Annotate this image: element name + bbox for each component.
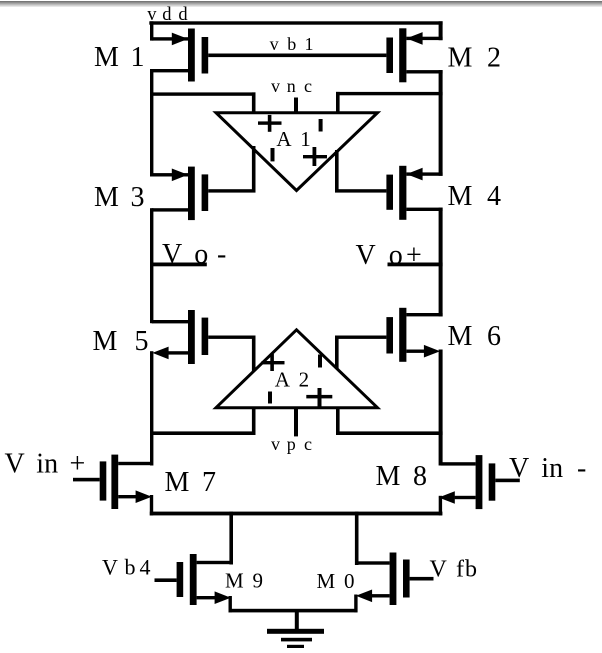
svg-text:8: 8 (413, 461, 427, 492)
svg-text:1: 1 (131, 42, 145, 73)
wire vnc input stub (294, 98, 298, 115)
label M2 (448, 42, 502, 73)
pin mark A2 inverting bottom-left (268, 392, 272, 404)
svg-text:V: V (162, 239, 182, 270)
wire M1 drain down to M3 source (150, 69, 153, 177)
wire tail bus (229, 609, 358, 613)
label M9 (225, 569, 263, 593)
svg-text:A: A (275, 368, 291, 392)
pin mark A2 noninverting bottom-right (306, 388, 332, 407)
label vnc (271, 76, 312, 96)
transistor M6 (335, 308, 443, 362)
svg-text:V: V (102, 555, 118, 580)
wire M7 source down to bus (150, 495, 153, 516)
svg-text:v: v (271, 76, 280, 96)
svg-text:c: c (304, 76, 312, 96)
wire vdd rail (149, 21, 442, 24)
ground (267, 629, 324, 648)
svg-text:2: 2 (487, 42, 501, 73)
svg-text:M: M (165, 467, 190, 498)
svg-text:n: n (287, 76, 296, 96)
label M5 (93, 326, 149, 357)
svg-text:+: + (70, 449, 86, 480)
svg-text:M: M (448, 42, 473, 73)
wire M2 source to vdd rail (439, 21, 443, 40)
wire A1 right input drop (336, 92, 340, 115)
transistor M3 (152, 167, 209, 221)
svg-text:7: 7 (202, 467, 216, 498)
svg-text:0: 0 (344, 569, 355, 593)
transistor M8 (439, 455, 520, 509)
op-amp A1 (216, 113, 378, 191)
wire M6 source down to M8 drain (439, 350, 443, 466)
svg-text:4: 4 (487, 181, 501, 212)
label Vo- (162, 239, 226, 270)
svg-text:3: 3 (131, 182, 145, 213)
svg-text:M: M (448, 181, 473, 212)
svg-text:5: 5 (135, 326, 149, 357)
label vpc (271, 434, 312, 454)
label M3 (94, 182, 145, 213)
label A2 (275, 368, 309, 392)
wire M2 drain down to M4 source (439, 70, 443, 176)
label Vfb (430, 557, 478, 583)
op-amp A2 (216, 330, 378, 408)
wire M3 drain down to M5 drain (150, 208, 153, 323)
svg-text:b: b (125, 555, 136, 580)
label Vin- (509, 453, 586, 484)
label M6 (448, 321, 502, 352)
svg-text:M: M (93, 326, 118, 357)
transistor M2 (386, 28, 442, 82)
svg-text:-: - (217, 239, 226, 270)
label vdd (147, 5, 188, 25)
label M1 (94, 42, 145, 73)
label M4 (448, 181, 502, 212)
svg-text:d: d (178, 5, 188, 25)
wire A1 left output to M3 gate (208, 189, 255, 192)
wire A1 right output down (335, 150, 339, 193)
wire node to A2 right input (336, 431, 443, 435)
svg-text:9: 9 (253, 569, 264, 593)
label M7 (165, 467, 217, 498)
transistor M9 (155, 554, 232, 605)
svg-text:-: - (577, 453, 586, 484)
svg-text:M: M (94, 42, 119, 73)
transistor M0 (355, 553, 434, 606)
svg-text:o: o (389, 240, 403, 271)
pin mark A1 noninverting bottom-right (303, 147, 327, 166)
wire node to A2 left input (150, 431, 256, 435)
wire M0 drain drop (355, 512, 359, 565)
pin mark A2 inverting top-right (318, 355, 322, 368)
wire vpc input stub (294, 407, 298, 437)
wire A2 right output up to M6 gate (335, 336, 339, 372)
wire M0 source down to tail bus (354, 595, 357, 613)
label Vin+ (5, 449, 86, 480)
svg-text:+: + (406, 240, 422, 271)
svg-text:M: M (225, 569, 244, 593)
label vb1 (270, 34, 314, 54)
svg-text:1: 1 (300, 127, 311, 151)
wire M4 drain down to M6 drain (439, 208, 443, 317)
wire M9 source down to tail bus (229, 596, 232, 612)
pin mark A1 noninverting top-left (258, 115, 282, 132)
label M0 (317, 569, 355, 593)
label Vb4 (102, 555, 151, 580)
wire A2 left input stub (252, 407, 256, 436)
svg-text:2: 2 (299, 368, 310, 392)
wire M8 source down to bus (439, 496, 442, 516)
wire M1 source to vdd rail (150, 21, 153, 40)
wire M9 drain drop (229, 512, 233, 565)
wire A1 left output down (252, 146, 256, 193)
svg-text:p: p (287, 434, 296, 454)
svg-text:1: 1 (305, 34, 314, 54)
transistor M1 (152, 29, 209, 82)
pin mark A1 inverting top-right (319, 119, 323, 132)
transistor M4 (386, 166, 442, 220)
node Vo- output stub (150, 263, 207, 267)
svg-text:b: b (287, 34, 296, 54)
svg-text:M: M (376, 461, 401, 492)
svg-text:f: f (456, 557, 464, 583)
svg-text:c: c (304, 434, 312, 454)
wire A2 left output up to M5 gate (252, 336, 256, 372)
wire A1 right output to M4 gate (335, 189, 386, 192)
wire M5 source down to M7 drain (150, 351, 153, 465)
wire vb1 bus M1 gate to M2 gate (208, 54, 386, 58)
svg-text:in: in (541, 453, 563, 484)
wire A1 left input drop (252, 92, 256, 114)
svg-text:in: in (36, 449, 58, 480)
wire common source bus (150, 512, 443, 516)
svg-text:V: V (356, 240, 376, 271)
pin mark A2 noninverting top-left (262, 354, 285, 371)
wire ground stub (295, 611, 299, 630)
svg-text:o: o (194, 239, 208, 270)
label A1 (276, 127, 310, 151)
svg-text:6: 6 (487, 321, 501, 352)
svg-text:M: M (94, 182, 119, 213)
svg-text:b: b (465, 557, 477, 583)
svg-text:d: d (162, 5, 172, 25)
svg-text:v: v (271, 434, 280, 454)
pin mark A1 inverting bottom-left (271, 148, 275, 161)
node Vo+ output stub (388, 263, 443, 267)
svg-text:A: A (276, 127, 292, 151)
transistor M5 (152, 310, 256, 364)
label Vo+ (356, 240, 422, 271)
svg-text:V: V (5, 449, 25, 480)
svg-text:M: M (317, 569, 336, 593)
transistor M7 (73, 455, 152, 509)
label M8 (376, 461, 428, 492)
svg-text:M: M (448, 321, 473, 352)
wire A2 right input stub (336, 407, 340, 436)
svg-text:4: 4 (140, 555, 151, 580)
wire M2 drain node to A1 right input (336, 92, 443, 95)
svg-text:v: v (270, 34, 279, 54)
wire M1 drain node to A1 left input (150, 92, 256, 95)
